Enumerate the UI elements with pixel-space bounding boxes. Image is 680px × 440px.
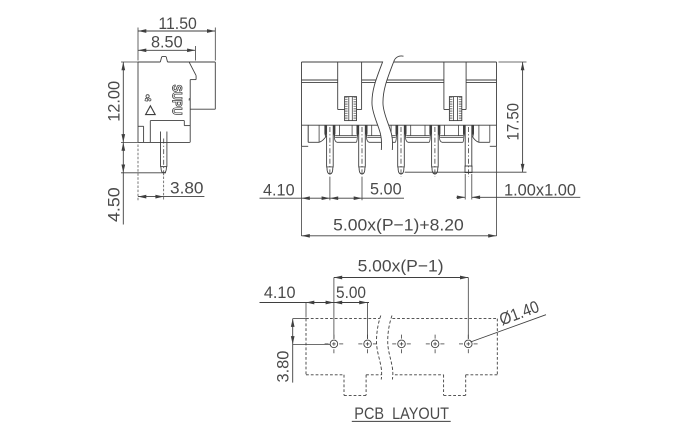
diameter 1.40 leader line bbox=[471, 315, 547, 342]
svg-text:5.00x(P−1)+8.20: 5.00x(P−1)+8.20 bbox=[333, 216, 464, 235]
svg-text:4.10: 4.10 bbox=[263, 180, 295, 199]
diameter 1.40 label bbox=[497, 297, 542, 329]
dimension 4.10 and 5.00 line bbox=[260, 180, 405, 200]
side view small trademark symbols bbox=[145, 95, 151, 102]
side view body outline bbox=[138, 62, 215, 142]
svg-text:SUPU: SUPU bbox=[170, 85, 185, 116]
pcb layout dashed outline with mounting notches bbox=[306, 319, 497, 396]
pcb layout holes with centre marks bbox=[325, 335, 478, 354]
front left body edge extension line bbox=[301, 146, 303, 236]
svg-text:4.50: 4.50 bbox=[104, 187, 123, 222]
dimension 4.50 extension line bbox=[121, 172, 166, 174]
pcb hole 2 extension line bbox=[367, 303, 369, 340]
dimension 3.80 bbox=[138, 179, 204, 199]
front view right end cavity bbox=[472, 125, 497, 146]
side view recycle triangle symbol bbox=[146, 106, 156, 115]
svg-text:3.80: 3.80 bbox=[170, 179, 204, 198]
svg-text:3.80: 3.80 bbox=[274, 351, 293, 383]
svg-text:5.00: 5.00 bbox=[336, 283, 366, 302]
pcb hole 5 extension line bbox=[467, 278, 469, 340]
side view inner block bbox=[150, 121, 190, 143]
front view solder pins bbox=[321, 125, 474, 177]
dimension 8.50 extension line bbox=[194, 46, 196, 61]
side view pin bbox=[161, 132, 167, 173]
front view body outline bbox=[302, 62, 497, 146]
front view break gap mask bbox=[372, 50, 404, 150]
svg-text:5.00x(P−1): 5.00x(P−1) bbox=[358, 257, 444, 276]
side view pin centreline bbox=[163, 139, 165, 177]
svg-text:12.00: 12.00 bbox=[104, 81, 123, 122]
pcb layout caption bbox=[352, 404, 451, 423]
side view foot step bbox=[138, 126, 144, 142]
front view left latch tab with knurled screw bbox=[338, 62, 362, 121]
front pin 1 extension line bbox=[329, 177, 331, 200]
dimension 3.80 extension lines bbox=[138, 145, 164, 201]
front right body edge extension line bbox=[496, 146, 498, 236]
pcb break line left bbox=[377, 316, 382, 380]
side view chamfer and latch profile bbox=[189, 62, 196, 100]
pcb outline left extension line bbox=[305, 303, 307, 318]
dimension 5.00x(P-1)+8.20 bbox=[302, 216, 497, 238]
dimension 17.50 extension lines bbox=[405, 62, 527, 172]
front pin 2 extension line bbox=[361, 177, 363, 200]
dimension 4.10 and 5.00 pcb line bbox=[260, 283, 370, 304]
svg-text:17.50: 17.50 bbox=[504, 103, 523, 141]
side view SUPU logo text bbox=[170, 85, 185, 116]
front view right latch tab with knurled screw bbox=[444, 62, 466, 121]
side view top latch pip bbox=[160, 56, 167, 62]
front pin 5 edge extension lines bbox=[465, 174, 472, 200]
svg-text:11.50: 11.50 bbox=[158, 14, 196, 33]
dimension 11.50 extension lines bbox=[138, 28, 215, 61]
svg-text:PCB LAYOUT: PCB LAYOUT bbox=[354, 404, 449, 423]
front view break line left bbox=[372, 62, 383, 151]
svg-text:8.50: 8.50 bbox=[151, 33, 183, 52]
dimension 17.50 bbox=[504, 62, 525, 172]
svg-text:1.00x1.00: 1.00x1.00 bbox=[504, 180, 576, 199]
front view contact funnels bbox=[335, 125, 464, 142]
dimension 3.80 pcb bbox=[274, 319, 295, 383]
pcb break line right bbox=[388, 316, 393, 380]
dimension 8.50 bbox=[138, 33, 195, 53]
dimension 12.00 bbox=[104, 62, 125, 142]
front view left end cavity bbox=[302, 125, 327, 146]
svg-text:5.00: 5.00 bbox=[370, 180, 402, 199]
pcb 3.80 extension lines bbox=[293, 319, 330, 345]
pcb hole 1 extension line bbox=[333, 278, 335, 340]
dimension 1.00x1.00 bbox=[456, 180, 580, 199]
svg-text:4.10: 4.10 bbox=[264, 283, 296, 302]
dimension 12.00 extension lines bbox=[121, 62, 140, 142]
pcb break gap mask bbox=[377, 316, 393, 380]
dimension 11.50 bbox=[138, 14, 215, 33]
dimension 4.50 bbox=[104, 142, 125, 224]
dimension 5.00x(P-1) pcb bbox=[334, 257, 468, 280]
front view break line right bbox=[383, 56, 404, 150]
